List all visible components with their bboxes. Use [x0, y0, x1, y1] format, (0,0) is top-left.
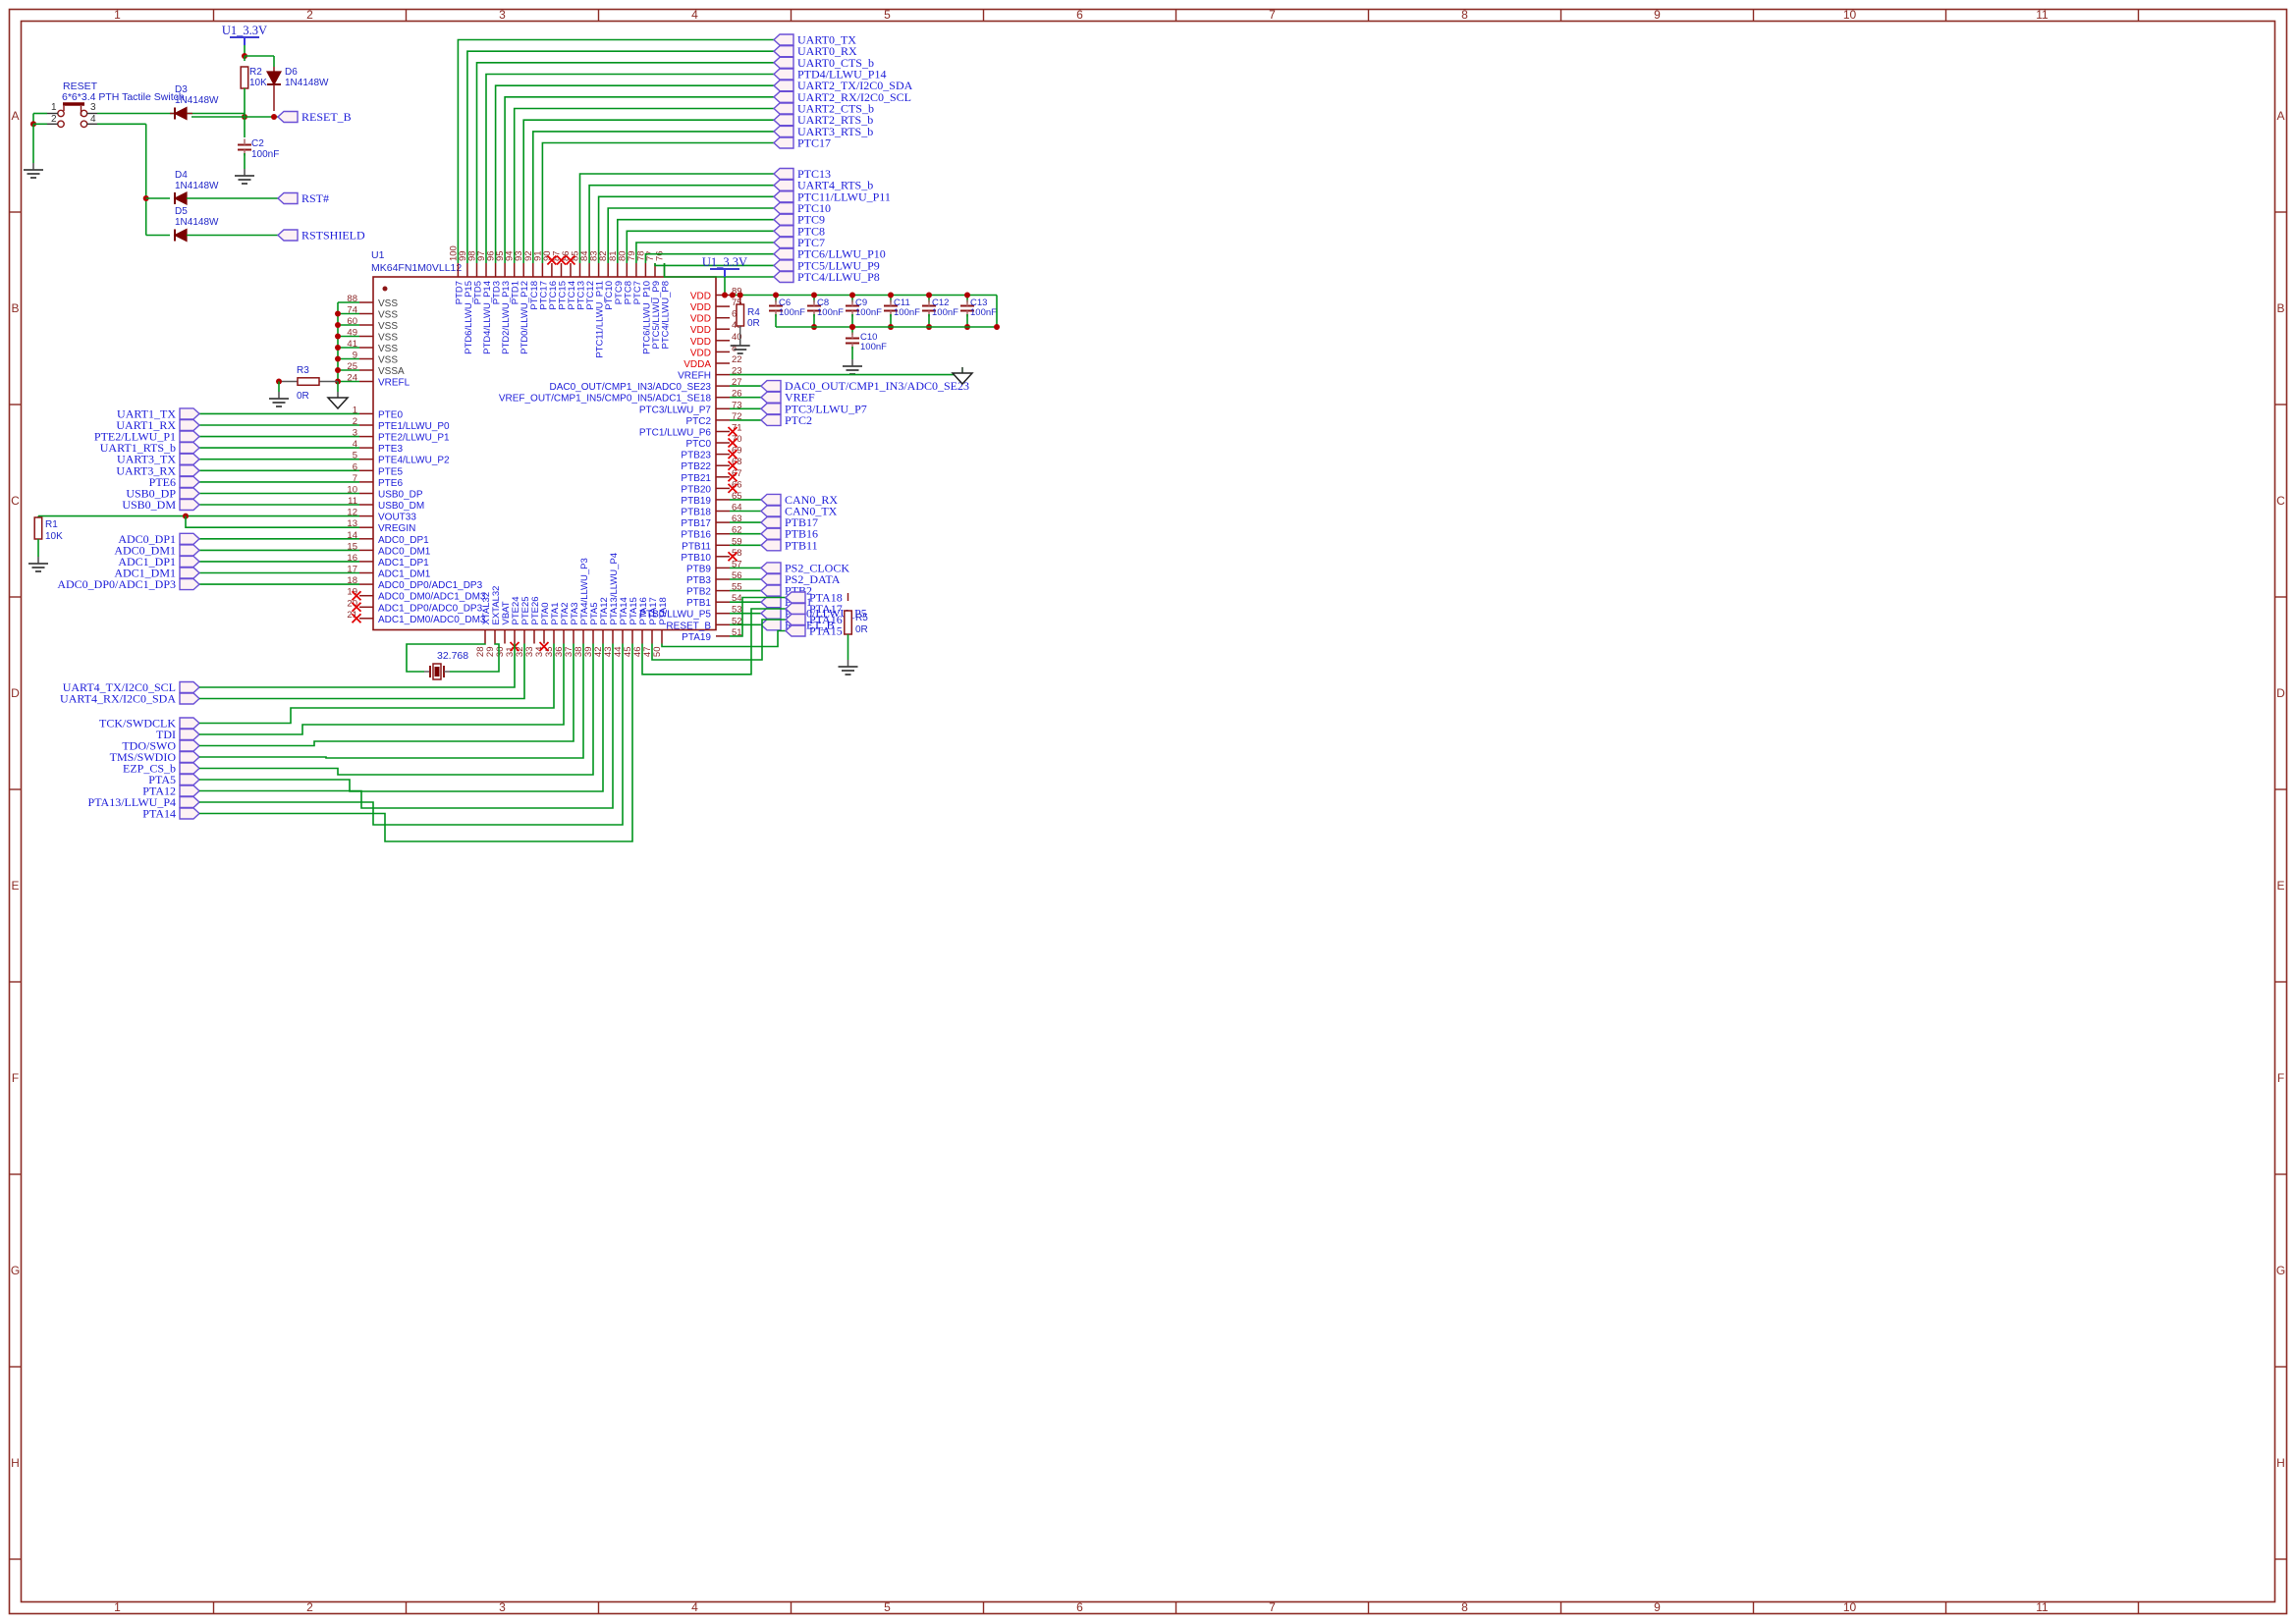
U1 pin 1 PTE0: [359, 412, 373, 414]
U1 pin 17 ADC1_DM1: [359, 572, 373, 574]
no-connect X pin 69: [729, 450, 738, 459]
U1 pin 55 PTB2: [716, 590, 730, 592]
svg-text:VREFL: VREFL: [378, 378, 410, 389]
svg-text:1N4148W: 1N4148W: [175, 217, 219, 228]
svg-text:RESET_B: RESET_B: [301, 110, 352, 124]
net flag PTC6/LLWU_P10: [774, 248, 793, 259]
wire: [199, 644, 564, 735]
svg-text:2: 2: [306, 1600, 313, 1614]
U1 pin 41 VSS: [359, 347, 373, 349]
no-connect X pin 66: [729, 484, 738, 493]
wire: [199, 644, 524, 699]
net flag ADC0_DP1: [180, 533, 199, 544]
U1 pin 11 USB0_DM: [359, 504, 373, 506]
svg-text:PTE4/LLWU_P2: PTE4/LLWU_P2: [378, 456, 450, 466]
wire: [589, 186, 774, 263]
U1 pin 57 PTB9: [716, 567, 730, 568]
U1 pin 12 VOUT33: [359, 515, 373, 517]
U1 top pin 93 PTD0/LLWU_P12: [522, 263, 524, 277]
net flag UART4_TX/I2C0_SCL: [180, 682, 199, 693]
svg-text:VREGIN: VREGIN: [378, 523, 415, 534]
U1 pin 16 ADC1_DP1: [359, 561, 373, 563]
wire: [652, 620, 786, 660]
no-connect X pin 34: [540, 642, 549, 651]
svg-text:VSS: VSS: [378, 321, 398, 332]
no-connect X pin 31: [511, 642, 519, 651]
wire: [199, 469, 359, 471]
U1 pin 7 PTE6: [359, 481, 373, 483]
svg-text:100nF: 100nF: [970, 307, 997, 318]
svg-text:3: 3: [499, 1600, 506, 1614]
U1 pin 10 USB0_DP: [359, 493, 373, 495]
net flag PTB1: [761, 597, 781, 608]
U1 pin 26 VREF_OUT/CMP1_IN5/CMP0_IN5/ADC1_SE18: [716, 397, 730, 399]
svg-text:H: H: [2276, 1456, 2285, 1470]
U1 pin 65 PTB19: [716, 499, 730, 501]
wire: [533, 132, 774, 263]
net flag PTC2: [761, 414, 781, 425]
svg-text:ADC1_DM0/ADC0_DM3: ADC1_DM0/ADC0_DM3: [378, 615, 486, 625]
U1 pin 3 PTE2/LLWU_P1: [359, 436, 373, 438]
U1 top pin 98 PTD5: [476, 263, 478, 277]
ground (triangle): [961, 367, 963, 373]
svg-text:R3: R3: [297, 365, 309, 376]
svg-text:D: D: [2276, 686, 2285, 700]
svg-text:PTC3/LLWU_P7: PTC3/LLWU_P7: [639, 405, 712, 415]
svg-text:VOUT33: VOUT33: [378, 513, 416, 523]
svg-text:R4: R4: [747, 307, 760, 318]
svg-text:6: 6: [1076, 1600, 1083, 1614]
svg-text:MK64FN1M0VLL12: MK64FN1M0VLL12: [371, 262, 462, 274]
svg-text:0R: 0R: [747, 318, 760, 329]
capacitor C13 100nF: [960, 305, 974, 307]
U1 bottom pin 43 PTA13/LLWU_P4: [612, 630, 614, 644]
U1 bottom pin 44 PTA14: [622, 630, 624, 644]
wire: [199, 561, 359, 563]
net flag TDI: [180, 730, 199, 740]
svg-text:U1_3.3V: U1_3.3V: [222, 24, 267, 37]
net flag PTA17: [786, 604, 805, 615]
svg-text:PTC1/LLWU_P6: PTC1/LLWU_P6: [639, 428, 712, 439]
U1 bottom pin 45 PTA15: [631, 630, 633, 644]
wire: [199, 644, 574, 746]
U1 bottom pin 30 VBAT: [504, 630, 506, 644]
svg-text:C: C: [11, 494, 20, 508]
svg-text:VDD: VDD: [690, 314, 711, 325]
wire: [730, 499, 761, 501]
svg-text:D4: D4: [175, 170, 188, 181]
net flag PTC17: [774, 137, 793, 148]
U1 pin 67 PTB21: [716, 476, 730, 478]
U1 top pin 78 PTC6/LLWU_P10: [644, 263, 646, 277]
svg-text:PTE2/LLWU_P1: PTE2/LLWU_P1: [378, 433, 450, 444]
wire: [199, 424, 359, 426]
net flag PTC8: [774, 226, 793, 237]
svg-text:B: B: [2276, 301, 2284, 315]
wire: [515, 109, 774, 264]
wire: [97, 113, 176, 115]
net flag CAN0_TX: [761, 506, 781, 516]
svg-text:E: E: [11, 879, 19, 893]
wire: [730, 385, 761, 387]
wire: [199, 459, 359, 460]
net flag ADC1_DM1: [180, 568, 199, 578]
svg-text:5: 5: [884, 8, 891, 22]
U1 pin 54 PTB1: [716, 601, 730, 603]
no-connect X pin 70: [729, 439, 738, 448]
wire: [199, 583, 359, 585]
svg-text:G: G: [11, 1264, 20, 1277]
svg-text:D5: D5: [175, 206, 188, 217]
svg-text:D: D: [11, 686, 20, 700]
svg-text:U1: U1: [371, 249, 385, 261]
svg-text:F: F: [12, 1071, 19, 1085]
ground: [851, 359, 853, 366]
U1 bottom pin 36 PTA2: [563, 630, 565, 644]
wire: [851, 296, 853, 303]
wire: [199, 412, 359, 414]
U1 pin 6 PTE5: [359, 469, 373, 471]
U1 pin 74 VSS: [359, 313, 373, 315]
U1 top pin 76 PTC4/LLWU_P8: [664, 263, 666, 277]
wire: [199, 572, 359, 574]
U1 pin 60 VSS: [359, 324, 373, 326]
svg-text:F: F: [2277, 1071, 2284, 1085]
svg-text:0R: 0R: [297, 391, 309, 402]
ground: [847, 660, 849, 667]
svg-text:6*6*3.4 PTH Tactile Switch: 6*6*3.4 PTH Tactile Switch: [62, 91, 185, 103]
svg-text:A: A: [2276, 109, 2284, 123]
svg-text:9: 9: [1654, 1600, 1661, 1614]
wire: [890, 296, 892, 303]
U1 bottom pin 33 PTE26: [533, 630, 535, 644]
wire: [662, 631, 786, 647]
svg-text:11: 11: [2036, 8, 2049, 22]
U1 top pin 82 PTC10: [607, 263, 609, 277]
svg-text:11: 11: [2036, 1600, 2049, 1614]
svg-text:VDDA: VDDA: [683, 359, 711, 370]
U1 pin 49 VSS: [359, 336, 373, 338]
svg-text:VDD: VDD: [690, 325, 711, 336]
wire: [618, 220, 774, 263]
wire: [199, 481, 359, 483]
net flag RESET_B: [278, 112, 298, 123]
wire: [199, 644, 593, 776]
ground: [32, 163, 34, 170]
svg-text:E: E: [2276, 879, 2284, 893]
U1 pin 52 RESET_B: [716, 623, 730, 625]
no-connect X pin 21: [353, 614, 361, 622]
wire: [199, 644, 623, 826]
svg-text:UART4_RX/I2C0_SDA: UART4_RX/I2C0_SDA: [60, 692, 176, 706]
svg-text:10K: 10K: [249, 78, 267, 88]
U1 pin 40 VDD: [716, 340, 730, 342]
svg-text:RESET_B: RESET_B: [666, 621, 711, 631]
U1 bottom pin 39 PTA5: [592, 630, 594, 644]
wire: [599, 196, 774, 263]
wire: [244, 88, 246, 111]
svg-text:9: 9: [1654, 8, 1661, 22]
svg-text:VDD: VDD: [690, 302, 711, 313]
U1 pin 24 VREFL: [359, 381, 373, 383]
svg-text:100nF: 100nF: [817, 307, 844, 318]
svg-text:VDD: VDD: [690, 337, 711, 348]
svg-text:ADC0_DP0/ADC1_DP3: ADC0_DP0/ADC1_DP3: [378, 580, 483, 591]
resistor R5: [847, 593, 849, 601]
svg-text:1: 1: [114, 8, 121, 22]
wire: [458, 40, 774, 264]
svg-text:B: B: [11, 301, 19, 315]
wire: [523, 120, 774, 263]
svg-text:8: 8: [732, 343, 737, 353]
U1 pin 14 ADC0_DP1: [359, 538, 373, 540]
net flag UART0_TX: [774, 34, 793, 45]
svg-text:PTB20: PTB20: [681, 484, 711, 495]
wire: [730, 407, 761, 409]
U1 pin 63 PTB17: [716, 521, 730, 523]
svg-text:PTA15: PTA15: [809, 624, 843, 638]
svg-text:PTE0: PTE0: [378, 409, 403, 420]
U1 pin 56 PTB3: [716, 578, 730, 580]
net flag ADC1_DP1: [180, 556, 199, 567]
capacitor C6 100nF: [769, 305, 783, 307]
net flag PTC7: [774, 238, 793, 248]
svg-text:VREFH: VREFH: [678, 371, 711, 382]
svg-text:2: 2: [51, 114, 57, 125]
svg-text:PTB10: PTB10: [681, 553, 711, 564]
wire: [730, 397, 761, 399]
net flag PTE2/LLWU_P1: [180, 431, 199, 442]
U1 top pin 94 PTD1: [514, 263, 516, 277]
net flag PTC10: [774, 203, 793, 214]
wire: [199, 549, 359, 551]
wire: [199, 493, 359, 495]
svg-text:PTC2: PTC2: [785, 413, 812, 427]
svg-text:PTC0: PTC0: [685, 439, 711, 450]
net flag PTC13: [774, 169, 793, 180]
wire: [467, 51, 774, 263]
U1 top pin 85 PTC13: [579, 263, 581, 277]
net flag ADC0_DM1: [180, 545, 199, 556]
svg-text:3: 3: [90, 102, 96, 113]
U1 bottom pin 46 PTA16: [641, 630, 643, 644]
svg-text:0R: 0R: [855, 624, 868, 635]
svg-text:D6: D6: [285, 67, 298, 78]
wire: [627, 231, 774, 263]
wire: [477, 63, 775, 263]
svg-text:PTB11: PTB11: [785, 538, 818, 552]
U1 bottom pin 28 XTAL32: [484, 630, 486, 644]
wire: [730, 521, 761, 523]
U1 pin 89 VDD: [716, 295, 730, 297]
net flag UART0_RX: [774, 46, 793, 57]
wire: [665, 263, 775, 277]
capacitor C2: [238, 144, 251, 146]
U1 top pin 95 PTD2/LLWU_P13: [504, 263, 506, 277]
U1 top pin 84 PTC12: [588, 263, 590, 277]
svg-text:ADC1_DP0/ADC0_DP3: ADC1_DP0/ADC0_DP3: [378, 603, 483, 614]
wire: [199, 644, 515, 688]
svg-text:PTC17: PTC17: [797, 136, 831, 150]
net flag UART1_RTS_b: [180, 443, 199, 454]
wire: [813, 296, 815, 303]
U1 bottom pin 34 PTA0: [543, 630, 545, 644]
wire: [505, 97, 774, 263]
svg-text:1: 1: [51, 102, 57, 113]
svg-text:100nF: 100nF: [779, 307, 805, 318]
ground: [244, 169, 246, 176]
net flag PTB0/LLWU_P5: [761, 608, 781, 619]
svg-text:PTC4/LLWU_P8: PTC4/LLWU_P8: [661, 281, 672, 350]
wire: [608, 208, 774, 263]
svg-text:USB0_DM: USB0_DM: [122, 498, 176, 512]
U1 pin 75 VDD: [716, 305, 730, 307]
wire: [636, 243, 774, 263]
wire: [730, 567, 761, 568]
net flag PTA5: [180, 775, 199, 785]
resistor R4: [739, 296, 741, 305]
net flag PTB17: [761, 517, 781, 528]
svg-text:PTB22: PTB22: [681, 461, 711, 472]
net flag PTC11/LLWU_P11: [774, 191, 793, 202]
wire: [199, 644, 603, 792]
svg-text:7: 7: [1269, 1600, 1276, 1614]
net flag PTC3/LLWU_P7: [761, 404, 781, 414]
net flag PTC9: [774, 214, 793, 225]
wire: [730, 578, 761, 580]
U1 bottom pin 47 PTA17: [651, 630, 653, 644]
U1 pin 70 PTC0: [716, 442, 730, 444]
wire: [244, 45, 246, 56]
net flag VREF: [761, 392, 781, 403]
wire: [97, 123, 146, 125]
net flag RST#: [278, 193, 298, 204]
U1 pin 66 PTB20: [716, 487, 730, 489]
U1 pin 69 PTB23: [716, 454, 730, 456]
U1 top pin 96 PTD3: [495, 263, 497, 277]
U1 pin 15 ADC0_DM1: [359, 549, 373, 551]
net flag UART1_TX: [180, 408, 199, 419]
wire: [199, 447, 359, 449]
no-connect X pin 71: [729, 427, 738, 436]
U1 top pin 91 PTC17: [541, 263, 543, 277]
net flag PTC4/LLWU_P8: [774, 272, 793, 283]
wire: [730, 623, 761, 625]
svg-text:100nF: 100nF: [894, 307, 920, 318]
U1 bottom pin 31 PTE24: [514, 630, 516, 644]
svg-text:100nF: 100nF: [932, 307, 958, 318]
net flag UART3_TX: [180, 454, 199, 464]
svg-text:8: 8: [1461, 8, 1468, 22]
wire VSS bus: [338, 301, 359, 303]
U1 pin 8 VDD: [716, 351, 730, 352]
U1 pin 58 PTB10: [716, 556, 730, 558]
net flag RESET_B: [761, 620, 781, 630]
U1 top pin 83 PTC11/LLWU_P11: [598, 263, 600, 277]
wire: [642, 609, 786, 675]
net flag UART2_TX/I2C0_SDA: [774, 81, 793, 91]
svg-text:RSTSHIELD: RSTSHIELD: [301, 229, 365, 243]
svg-text:PTE1/LLWU_P0: PTE1/LLWU_P0: [378, 421, 450, 432]
net flag PTD4/LLWU_P14: [774, 69, 793, 80]
wire: [496, 85, 774, 263]
svg-text:PTE6: PTE6: [378, 478, 403, 489]
svg-text:PTC4/LLWU_P8: PTC4/LLWU_P8: [797, 270, 880, 284]
U1 pin 64 PTB18: [716, 511, 730, 513]
net flag PTA16: [786, 615, 805, 625]
wire: [730, 598, 786, 636]
U1 pin 51 PTA19: [716, 635, 730, 637]
U1 pin 72 PTC2: [716, 419, 730, 421]
net flag EZP_CS_b: [180, 763, 199, 774]
svg-text:VSS: VSS: [378, 355, 398, 366]
net flag UART3_RX: [180, 465, 199, 476]
wire: [928, 296, 930, 303]
no-connect X pin 68: [729, 461, 738, 470]
U1 pin 2 PTE1/LLWU_P0: [359, 424, 373, 426]
U1 pin 27 DAC0_OUT/CMP1_IN3/ADC0_SE23: [716, 385, 730, 387]
wire VREFH to ground: [996, 296, 998, 328]
U1 top pin 81 PTC9: [617, 263, 619, 277]
U1 top pin 92 PTC18: [532, 263, 534, 277]
net flag TMS/SWDIO: [180, 752, 199, 763]
wire: [966, 296, 968, 303]
U1 pin 23 VREFH: [716, 374, 730, 376]
net flag UART0_CTS_b: [774, 57, 793, 68]
ground (triangle): [337, 392, 339, 398]
U1 top pin 87 PTC15: [561, 263, 563, 277]
svg-text:PTB17: PTB17: [681, 518, 711, 529]
net flag PTA12: [180, 785, 199, 796]
U1 bottom pin 50 PTA18: [661, 630, 663, 644]
svg-text:1N4148W: 1N4148W: [175, 181, 219, 191]
wire: [542, 143, 774, 264]
U1 pin 18 ADC0_DP0/ADC1_DP3: [359, 583, 373, 585]
node RESET_B junction: [191, 116, 278, 118]
svg-text:G: G: [2276, 1264, 2285, 1277]
wire: [730, 419, 761, 421]
U1 pin 4 PTE3: [359, 447, 373, 449]
svg-text:VSS: VSS: [378, 298, 398, 309]
svg-text:RST#: RST#: [301, 191, 329, 205]
svg-text:ADC0_DP1: ADC0_DP1: [378, 535, 429, 546]
wire cap bottom rail: [776, 326, 997, 328]
U1 pin 88 VSS: [359, 301, 373, 303]
U1 pin 9 VSS: [359, 358, 373, 360]
ground: [37, 557, 39, 564]
U1 bottom pin 35 PTA1: [553, 630, 555, 644]
svg-text:100nF: 100nF: [860, 342, 887, 352]
U1 bottom pin 29 EXTAL32: [494, 630, 496, 644]
svg-text:PTB11: PTB11: [682, 541, 711, 552]
svg-text:D3: D3: [175, 84, 188, 95]
svg-text:PTE5: PTE5: [378, 466, 403, 477]
U1 pin 61 VDD: [716, 317, 730, 319]
U1 bottom pin 32 PTE25: [523, 630, 525, 644]
U1 top pin 77 PTC5/LLWU_P9: [654, 263, 656, 277]
svg-text:7: 7: [1269, 8, 1276, 22]
svg-text:C: C: [2276, 494, 2285, 508]
svg-text:PTB2: PTB2: [686, 587, 711, 598]
net flag PTA18: [786, 592, 805, 603]
net flag USB0_DP: [180, 488, 199, 499]
svg-text:PTB1: PTB1: [686, 598, 711, 609]
svg-text:50: 50: [652, 647, 663, 658]
net flag ADC0_DP0/ADC1_DP3: [180, 579, 199, 590]
resistor R1: [34, 517, 42, 539]
wire: [730, 601, 761, 603]
U1 top pin 80 PTC8: [626, 263, 628, 277]
